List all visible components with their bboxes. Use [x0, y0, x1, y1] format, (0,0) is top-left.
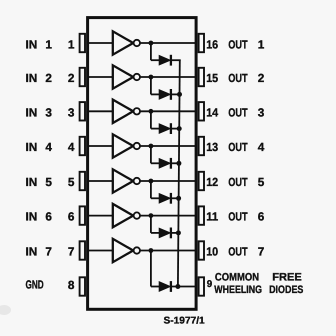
wire output 4 node down to diode D4	[150, 146, 152, 163]
pin 2 (left package lead)	[80, 68, 85, 86]
pin 12 (right package lead)	[199, 172, 204, 190]
pin 10 (right package lead)	[199, 241, 204, 259]
svg-text:S-1977/1: S-1977/1	[164, 316, 206, 327]
inverter 2 output bubble	[134, 74, 140, 80]
wire diode D4 anode lead	[151, 162, 160, 164]
wire input pin 5 to inverter 5	[87, 180, 113, 182]
wire input pin 6 to inverter 6	[87, 215, 113, 217]
svg-text:OUT: OUT	[228, 105, 248, 119]
svg-text:6: 6	[68, 210, 75, 224]
svg-text:OUT: OUT	[228, 140, 248, 154]
node rail junction D6	[176, 230, 181, 235]
diode D3 (free-wheeling)	[159, 124, 170, 133]
svg-text:16: 16	[206, 37, 218, 51]
wire input pin 4 to inverter 4	[87, 145, 113, 147]
svg-text:13: 13	[206, 140, 218, 154]
wire diode D6 cathode to common rail	[171, 232, 179, 234]
node junction on output 5	[149, 179, 154, 184]
pin 13 (right package lead)	[199, 137, 204, 155]
diode D4 cathode bar	[170, 158, 172, 169]
svg-text:4: 4	[45, 140, 52, 154]
svg-text:14: 14	[206, 105, 218, 119]
svg-text:OUT: OUT	[228, 71, 248, 85]
wire inverter 5 output to pin 12	[140, 180, 197, 182]
node rail junction D2	[177, 92, 182, 97]
svg-text:1: 1	[68, 37, 75, 51]
wire diode D7 cathode to pin 9	[171, 286, 197, 288]
diode D4 (free-wheeling)	[159, 159, 170, 168]
svg-text:1: 1	[258, 37, 265, 51]
inverter U1A (channel 1 triangle)	[113, 31, 133, 54]
svg-text:5: 5	[68, 175, 75, 189]
inverter 3 output bubble	[134, 108, 140, 114]
svg-text:3: 3	[258, 105, 265, 119]
wire output 3 node down to diode D3	[150, 111, 152, 128]
pin 5 (left package lead)	[80, 172, 85, 190]
wire output 1 node down to diode D1	[150, 43, 152, 60]
wire inverter 7 output to pin 10	[140, 250, 197, 252]
pin 16 (right package lead)	[199, 34, 204, 52]
svg-text:3: 3	[45, 105, 52, 119]
pin 4 (left package lead)	[80, 137, 85, 155]
wire diode D2 anode lead	[151, 93, 160, 95]
svg-text:4: 4	[258, 140, 265, 154]
svg-text:FREE: FREE	[272, 271, 302, 283]
pin 6 (left package lead)	[80, 206, 85, 224]
svg-text:GND: GND	[26, 278, 45, 292]
paper smudge bottom-left	[0, 305, 11, 315]
svg-text:6: 6	[45, 210, 52, 224]
svg-text:7: 7	[45, 245, 52, 259]
svg-text:12: 12	[206, 175, 218, 189]
svg-text:OUT: OUT	[228, 210, 248, 224]
svg-text:OUT: OUT	[228, 37, 248, 51]
common free-wheeling diode cathode rail (net to pin 9)	[178, 60, 180, 286]
node junction on output 1	[149, 41, 154, 46]
wire inverter 2 output to pin 15	[140, 76, 197, 78]
wire diode D2 cathode to common rail	[171, 93, 181, 95]
svg-text:IN: IN	[26, 71, 38, 85]
diode D7 cathode bar	[170, 281, 172, 292]
pin 14 (right package lead)	[199, 102, 204, 120]
wire diode D1 anode lead	[151, 59, 160, 61]
wire output 7 node down to diode D7	[150, 251, 152, 287]
wire input pin 1 to inverter 1	[87, 42, 113, 44]
svg-text:11: 11	[206, 210, 218, 224]
svg-text:IN: IN	[26, 140, 38, 154]
svg-text:7: 7	[258, 245, 265, 259]
wire inverter 1 output to pin 16	[140, 42, 197, 44]
wire diode D4 cathode to common rail	[171, 162, 180, 164]
pin 11 (right package lead)	[199, 206, 204, 224]
wire diode D5 cathode to common rail	[171, 197, 180, 199]
inverter 6 output bubble	[134, 212, 140, 218]
node junction on output 7	[149, 248, 154, 253]
svg-text:5: 5	[258, 175, 265, 189]
inverter 4 output bubble	[134, 143, 140, 149]
diode D6 cathode bar	[170, 228, 172, 239]
wire input pin 7 to inverter 7	[87, 250, 113, 252]
wire input pin 3 to inverter 3	[87, 110, 113, 112]
diode D3 cathode bar	[170, 123, 172, 134]
node rail junction D5	[176, 196, 181, 201]
svg-text:7: 7	[68, 245, 75, 259]
svg-text:IN: IN	[26, 105, 38, 119]
wire output 2 node down to diode D2	[150, 77, 152, 94]
node junction on output 2	[149, 75, 154, 80]
diode D5 (free-wheeling)	[159, 194, 170, 203]
IC package outline (16-pin DIP body)	[88, 18, 197, 310]
node rail junction D7	[175, 284, 180, 289]
pin 9 (right package lead)	[199, 277, 204, 295]
diode D1 cathode bar	[170, 55, 172, 66]
inverter U1C (channel 3 triangle)	[113, 100, 133, 123]
wire diode D3 cathode to common rail	[171, 128, 180, 130]
wire input pin 2 to inverter 2	[87, 76, 113, 78]
svg-text:5: 5	[45, 175, 52, 189]
svg-text:COMMON: COMMON	[215, 271, 259, 283]
svg-text:1: 1	[45, 37, 52, 51]
svg-text:2: 2	[45, 71, 52, 85]
pin 15 (right package lead)	[199, 68, 204, 86]
diode D5 cathode bar	[170, 193, 172, 204]
svg-text:8: 8	[68, 278, 75, 292]
svg-text:9: 9	[207, 279, 213, 290]
inverter U1D (channel 4 triangle)	[113, 134, 133, 157]
wire diode D6 anode lead	[151, 232, 160, 234]
svg-text:DIODES: DIODES	[269, 284, 303, 296]
svg-text:6: 6	[258, 210, 265, 224]
diode D2 cathode bar	[170, 89, 172, 100]
inverter U1G (channel 7 triangle)	[113, 239, 133, 262]
svg-text:10: 10	[206, 245, 218, 259]
diode D2 (free-wheeling)	[159, 90, 170, 99]
inverter U1F (channel 6 triangle)	[113, 204, 133, 227]
svg-text:OUT: OUT	[228, 175, 248, 189]
svg-text:IN: IN	[26, 245, 38, 259]
node junction on output 3	[149, 109, 154, 114]
wire output 6 node down to diode D6	[150, 216, 152, 233]
inverter 7 output bubble	[134, 247, 140, 253]
node rail junction D4	[176, 161, 181, 166]
wire inverter 3 output to pin 14	[140, 110, 197, 112]
inverter 1 output bubble	[134, 40, 140, 46]
inverter 5 output bubble	[134, 178, 140, 184]
inverter U1E (channel 5 triangle)	[113, 169, 133, 192]
diode D1 (free-wheeling)	[159, 56, 170, 65]
svg-text:OUT: OUT	[228, 245, 248, 259]
wire diode D3 anode lead	[151, 128, 160, 130]
node rail junction D3	[177, 126, 182, 131]
svg-text:2: 2	[68, 71, 75, 85]
pin 1 (left package lead)	[80, 34, 85, 52]
pin 7 (left package lead)	[80, 241, 85, 259]
diode D6 (free-wheeling)	[159, 228, 170, 237]
node junction on output 6	[149, 213, 154, 218]
svg-text:IN: IN	[26, 37, 38, 51]
svg-text:4: 4	[68, 140, 75, 154]
svg-text:IN: IN	[26, 175, 38, 189]
wire inverter 4 output to pin 13	[140, 145, 197, 147]
svg-text:WHEELING: WHEELING	[214, 284, 262, 296]
node junction on output 4	[149, 144, 154, 149]
wire output 5 node down to diode D5	[150, 181, 152, 198]
svg-text:IN: IN	[26, 210, 38, 224]
wire diode D5 anode lead	[151, 197, 160, 199]
diode D7 (free-wheeling)	[159, 282, 170, 291]
svg-text:3: 3	[68, 105, 75, 119]
svg-text:2: 2	[258, 71, 265, 85]
wire inverter 6 output to pin 11	[140, 215, 197, 217]
pin 3 (left package lead)	[80, 102, 85, 120]
wire diode D7 anode lead	[151, 286, 160, 288]
wire diode D1 cathode to common rail	[171, 59, 181, 61]
svg-text:15: 15	[206, 71, 218, 85]
pin 8 (left package lead)	[80, 277, 85, 295]
inverter U1B (channel 2 triangle)	[113, 65, 133, 88]
